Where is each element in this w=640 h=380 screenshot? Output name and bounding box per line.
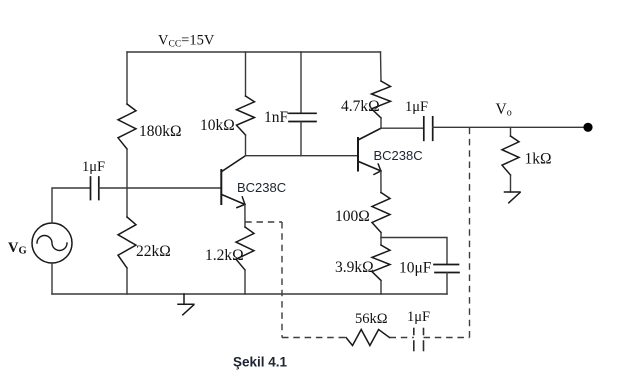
wire: 1.2k to ground rail — [244, 270, 246, 294]
resistor R6 1k — [502, 136, 519, 175]
wire: 180k to base node to 22k — [126, 149, 128, 217]
svg-text:10μF: 10μF — [399, 260, 432, 277]
svg-text:BC238C: BC238C — [237, 180, 286, 195]
svg-text:100Ω: 100Ω — [335, 208, 370, 225]
resistor R7 100R — [372, 193, 390, 233]
wire: 3.9k to ground rail — [380, 281, 382, 295]
wire: 1nF to interstage line — [300, 122, 302, 156]
wire: Q1 emitter down — [244, 204, 246, 227]
svg-text:1μF: 1μF — [82, 159, 105, 175]
svg-text:3.9kΩ: 3.9kΩ — [335, 259, 374, 276]
wire: junction to bypass cap — [381, 238, 447, 265]
svg-text:1kΩ: 1kΩ — [525, 151, 552, 168]
wire: 1k to ground — [510, 175, 512, 192]
svg-text:22kΩ: 22kΩ — [136, 243, 171, 260]
svg-text:VG: VG — [8, 240, 27, 257]
wire: source top to input node — [52, 188, 90, 223]
wire: interstage line collector Q1 to base Q2 — [246, 155, 359, 157]
resistor R1 180k — [118, 104, 136, 149]
transistor Q2 BC238C — [358, 128, 381, 171]
svg-text:180kΩ: 180kΩ — [139, 123, 182, 140]
output terminal dot — [583, 123, 592, 132]
svg-text:56kΩ: 56kΩ — [355, 311, 388, 327]
svg-text:VCC=15V: VCC=15V — [158, 33, 215, 50]
wire: dashed bottom left to 56k — [282, 337, 346, 339]
Q2 emitter arrow — [374, 164, 381, 174]
ground rail bottom — [52, 293, 447, 295]
source VG — [32, 223, 72, 263]
wire: dashed 1uF to right corner — [424, 337, 470, 339]
wire: 10k to collector node — [245, 135, 247, 156]
transistor Q1 BC238C — [221, 156, 245, 205]
resistor R2 22k — [118, 217, 136, 268]
wire: output wire to terminal — [433, 126, 588, 128]
svg-text:10kΩ: 10kΩ — [200, 117, 235, 134]
svg-text:1μF: 1μF — [405, 99, 428, 115]
svg-text:Vo: Vo — [496, 101, 512, 119]
feedback dashed net — [245, 127, 469, 337]
wire: 4.7k to Q2 collector node — [380, 118, 382, 128]
wire: Q2 emitter down to 100R — [380, 171, 382, 193]
wire: dashed vertical right to output — [469, 127, 471, 337]
svg-text:BC238C: BC238C — [374, 148, 423, 163]
resistor R3 10k — [237, 96, 255, 135]
wire: 1nF branch from rail — [300, 52, 302, 113]
svg-text:1μF: 1μF — [407, 309, 430, 325]
capacitor C1 1uF input plates — [91, 177, 99, 200]
wire: top rail to 180k — [126, 52, 128, 104]
wire: cap to Q1 base — [99, 187, 221, 189]
resistor R8 3.9k — [372, 245, 390, 281]
wire: 1k load branch — [510, 127, 512, 136]
wire: 10k branch — [245, 52, 247, 96]
wire: 22k to ground rail — [126, 268, 128, 294]
wire: 4.7k branch from rail — [380, 52, 383, 81]
wire: 100R to 3.9k with junction — [380, 233, 382, 246]
wire: dashed Q1 emitter to corner — [245, 221, 282, 223]
capacitor C2 1nF plates — [289, 113, 316, 121]
resistor R9 56k feedback — [346, 330, 390, 346]
wire: collector to output cap — [381, 127, 424, 129]
wire: dashed vertical left — [281, 222, 283, 338]
Q1 emitter arrow — [237, 197, 245, 208]
wire: VCC top rail — [127, 51, 381, 53]
resistor R5 4.7k — [372, 81, 391, 118]
sine wave in source — [37, 236, 67, 251]
capacitor C4 10uF plates — [434, 265, 459, 273]
wire: 10uF to ground rail — [446, 273, 448, 295]
wire: source bottom to ground rail — [51, 263, 53, 294]
resistor R4 1.2k — [236, 227, 254, 270]
svg-text:Şekil 4.1: Şekil 4.1 — [233, 355, 288, 370]
svg-text:1nF: 1nF — [264, 109, 289, 126]
capacitor C3 1uF output plates — [424, 117, 433, 141]
svg-text:4.7kΩ: 4.7kΩ — [341, 98, 380, 115]
wire: dashed 56k to 1uF — [390, 337, 414, 339]
capacitor C5 1uF feedback dashed plates — [414, 329, 424, 351]
ground symbol at 1k — [505, 192, 521, 203]
ground symbol main — [178, 294, 194, 315]
svg-text:1.2kΩ: 1.2kΩ — [205, 247, 244, 264]
